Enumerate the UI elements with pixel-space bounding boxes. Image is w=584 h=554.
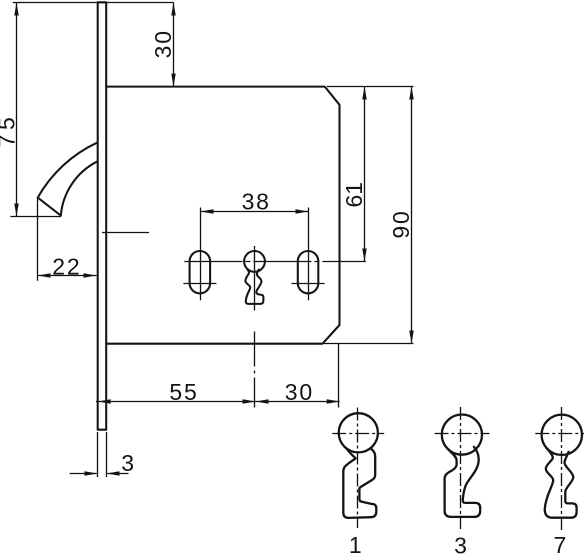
svg-text:3: 3: [121, 450, 136, 476]
svg-text:90: 90: [388, 209, 414, 238]
svg-text:30: 30: [285, 379, 314, 405]
svg-text:22: 22: [52, 254, 81, 280]
svg-text:30: 30: [150, 29, 176, 58]
svg-text:61: 61: [341, 182, 367, 208]
svg-text:1: 1: [349, 532, 364, 554]
svg-text:55: 55: [169, 379, 198, 405]
svg-text:75: 75: [0, 113, 20, 148]
svg-text:38: 38: [242, 189, 271, 215]
svg-text:3: 3: [454, 533, 469, 554]
svg-text:7: 7: [554, 532, 569, 554]
